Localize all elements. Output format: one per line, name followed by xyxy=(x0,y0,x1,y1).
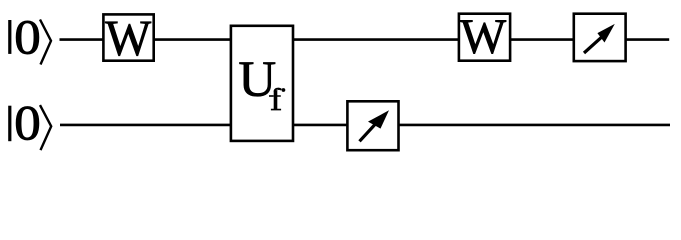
gate W2 box xyxy=(459,14,510,61)
node ket0 bottom: angle bracket xyxy=(40,105,51,150)
node ket0 top: zero xyxy=(16,21,39,54)
measurement arrow top: shaft xyxy=(584,36,602,53)
wire bottom qubit xyxy=(60,124,670,127)
gate W2 letter W xyxy=(460,20,506,53)
measurement box bottom qubit xyxy=(347,101,398,150)
node ket0 bottom: zero xyxy=(16,107,39,140)
node ket0 top: angle bracket xyxy=(40,20,51,65)
gate Uf box xyxy=(231,26,293,141)
gate Uf subscript f xyxy=(271,89,282,111)
node ket0 bottom: bar xyxy=(8,106,11,142)
measurement arrow bottom: head xyxy=(368,110,389,128)
gate Uf letter U xyxy=(240,63,276,97)
measurement box top qubit xyxy=(574,14,626,61)
measurement arrow top: head xyxy=(597,24,614,43)
gate W1 box xyxy=(103,14,153,60)
node ket0 top: bar xyxy=(8,20,11,54)
gate W1 letter W xyxy=(105,22,151,56)
wire top qubit xyxy=(60,38,670,41)
measurement arrow bottom: shaft xyxy=(360,124,376,142)
